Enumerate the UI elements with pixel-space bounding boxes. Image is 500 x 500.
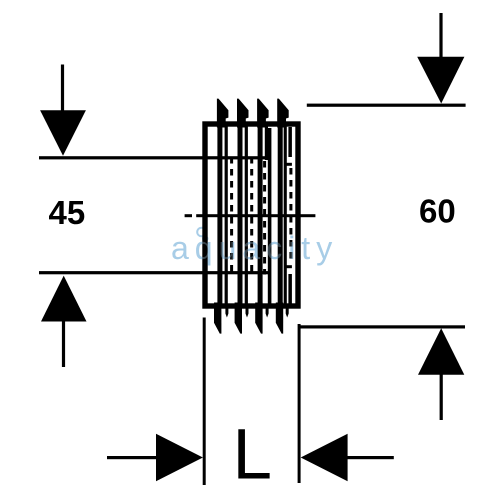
upper bore line / 45 dimension line bbox=[39, 156, 271, 159]
svg-text:L: L bbox=[233, 416, 273, 495]
thread root dart 4 below body bbox=[286, 308, 289, 318]
internal thread end mark lower bbox=[284, 265, 292, 268]
45 top arrow stem bbox=[61, 65, 64, 112]
centerline main bbox=[196, 214, 315, 217]
45 bottom arrowhead (up) bbox=[41, 276, 87, 322]
fitting body outline bbox=[205, 124, 298, 306]
thread flank line A1 bbox=[217, 126, 222, 304]
60 top arrowhead (down) bbox=[417, 57, 464, 104]
L right extension line bbox=[298, 324, 301, 483]
thread flank line B1 bbox=[225, 126, 228, 304]
internal thread right-end solid top segment bbox=[288, 127, 292, 157]
thread flank line A2 bbox=[238, 126, 243, 304]
top thread crest fin 4 bbox=[277, 99, 289, 128]
L right arrowhead (left) bbox=[301, 434, 348, 481]
bottom thread crest fin 3 bbox=[255, 303, 262, 334]
L left extension line bbox=[203, 318, 206, 486]
svg-text:60: 60 bbox=[419, 193, 456, 230]
bottom thread crest fin 4 bbox=[276, 303, 283, 334]
top thread crest fin 1 bbox=[217, 99, 229, 128]
bottom thread crest fin 1 bbox=[214, 303, 221, 334]
bottom thread crest fin 2 bbox=[235, 303, 242, 334]
45 bottom arrow stem bbox=[62, 321, 65, 367]
internal thread end mark upper bbox=[284, 163, 292, 166]
thread root dart 1 below body bbox=[225, 308, 228, 318]
L right leader line bbox=[346, 456, 394, 459]
svg-text:45: 45 bbox=[49, 194, 86, 231]
60 bottom dimension line bbox=[300, 325, 466, 328]
top thread crest fin 2 bbox=[237, 99, 249, 128]
L left leader line bbox=[107, 456, 158, 459]
L left arrowhead (right) bbox=[156, 434, 203, 481]
lower bore line / 45 dimension line bbox=[39, 271, 271, 274]
thread flank line B4 bbox=[284, 126, 287, 304]
svg-text:aquacity: aquacity bbox=[171, 230, 338, 266]
centerline short dash bbox=[185, 214, 192, 217]
thread flank line B2 bbox=[245, 126, 248, 304]
60 top dimension line bbox=[307, 104, 466, 107]
60 top arrow stem bbox=[439, 13, 442, 58]
hidden internal thread dashed line 2 bbox=[250, 157, 253, 275]
thread root dart 2 below body bbox=[246, 308, 249, 318]
internal thread right-end dashed middle bbox=[289, 168, 292, 263]
hidden internal thread dashed line 3 bbox=[263, 161, 266, 275]
60 bottom arrowhead (up) bbox=[418, 328, 464, 375]
thread flank line A3 bbox=[258, 126, 263, 304]
45 top arrowhead (down) bbox=[40, 110, 86, 156]
internal thread right-end solid bottom segment bbox=[288, 274, 292, 304]
thread flank line A4 bbox=[278, 126, 283, 304]
60 bottom arrow stem bbox=[440, 374, 443, 420]
watermark bubble large (under-layer) bbox=[197, 228, 207, 241]
hidden internal thread dashed line 1 bbox=[230, 157, 233, 275]
thread root dart 3 below body bbox=[266, 308, 269, 318]
thread flank line B3 upper bbox=[265, 126, 268, 160]
thread root line R3 bbox=[268, 128, 272, 304]
top thread crest fin 3 bbox=[257, 99, 269, 128]
